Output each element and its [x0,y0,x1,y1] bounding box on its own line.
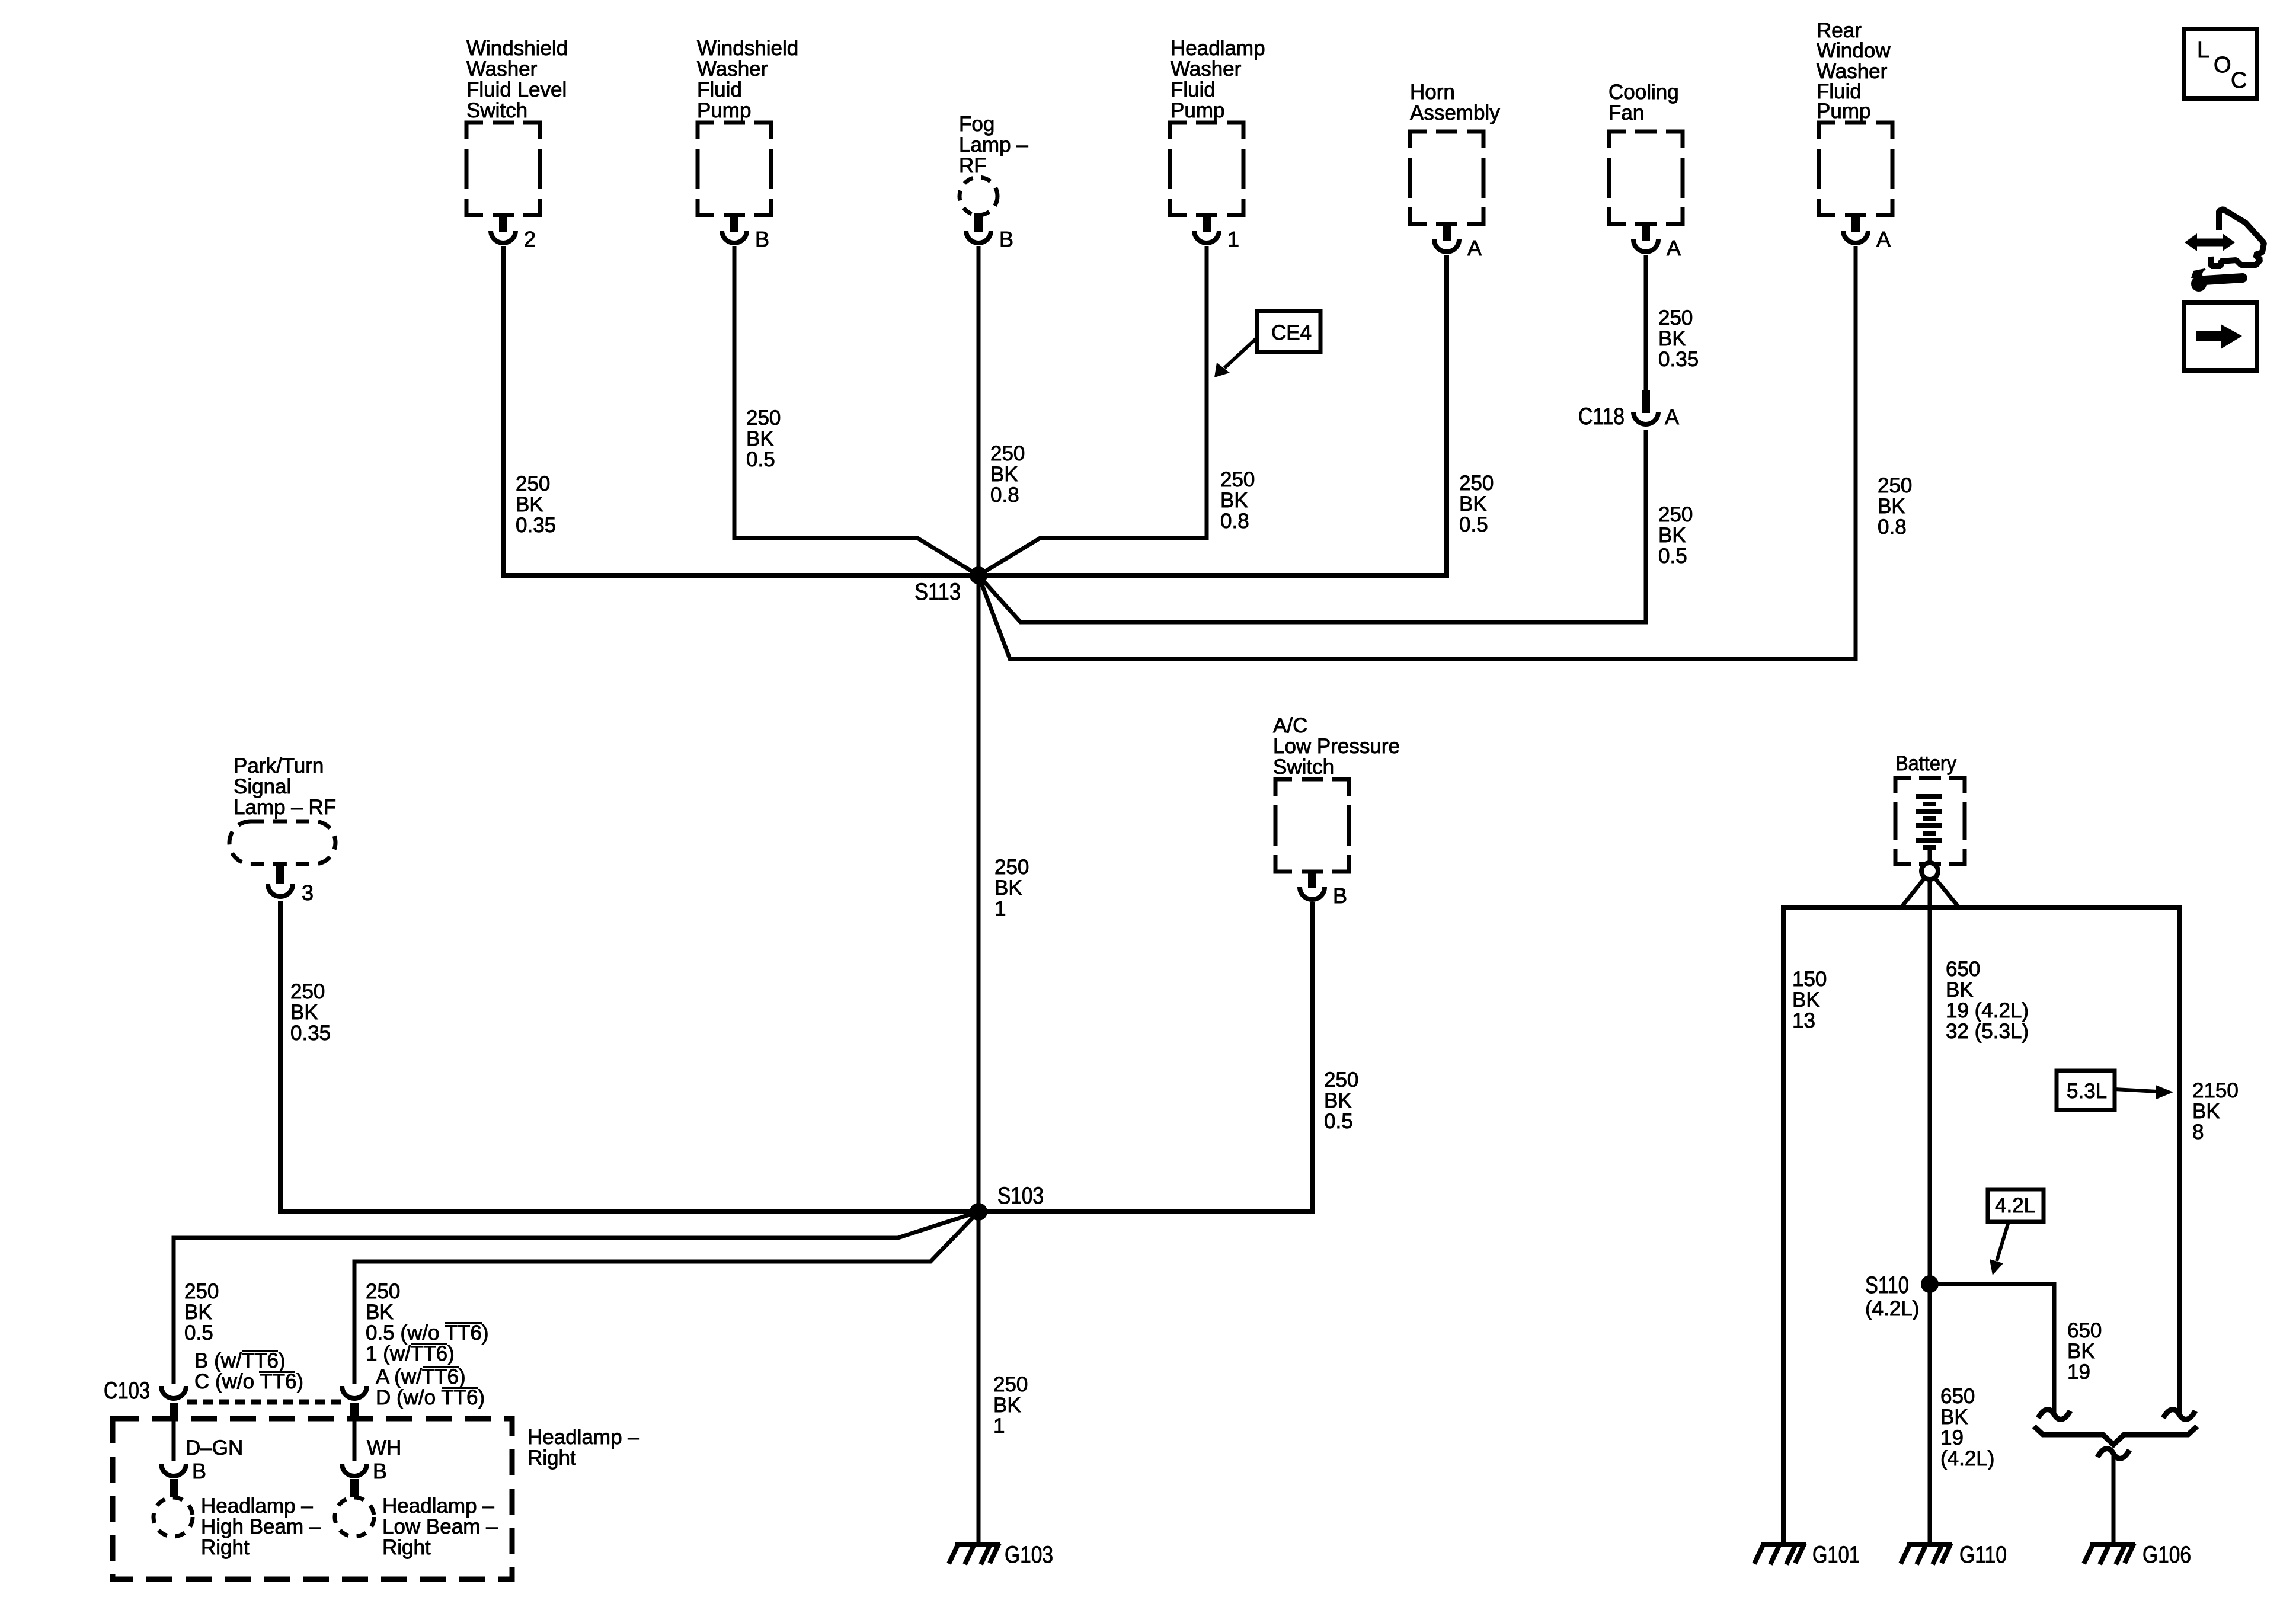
icon: vehicle service symbol double arrow [2185,233,2235,251]
svg-text:Lamp – RF: Lamp – RF [234,796,336,819]
svg-text:Switch: Switch [466,99,527,122]
svg-text:C (w/o TT6): C (w/o TT6) [194,1370,303,1393]
svg-text:0.35: 0.35 [1658,348,1699,371]
pin stub: park/turn lamp pin 3 [276,864,284,884]
svg-text:650: 650 [2067,1319,2102,1342]
callout box CE4 [1257,311,1320,352]
connector cup: park/turn lamp pin 3 [268,884,293,897]
svg-text:B: B [755,227,769,251]
svg-text:Signal: Signal [234,775,291,798]
svg-text:C118: C118 [1578,404,1625,430]
wire: headlamp washer pump to S113 [978,246,1207,575]
wire label 250 BK 0.5 (horn) [1459,472,1494,536]
svg-text:250: 250 [516,472,550,495]
svg-text:0.5: 0.5 [746,448,775,471]
svg-text:Park/Turn: Park/Turn [234,754,324,777]
svg-text:B: B [999,227,1013,251]
svg-text:Horn: Horn [1410,81,1455,104]
pin stub: WWF pump pin B [730,215,738,232]
wire label 150 BK 13 [1792,968,1827,1032]
svg-text:S103: S103 [997,1183,1044,1209]
icon: arrow continuation box [2184,302,2257,370]
wire break squiggle (S110 branch) [2038,1410,2070,1420]
splice label S113 [914,579,961,605]
component box: Headlamp - Right dashed box [113,1419,512,1579]
connector cup: high beam pin B [161,1464,186,1476]
svg-text:Fog: Fog [959,113,994,136]
svg-text:250: 250 [746,406,781,430]
svg-text:250: 250 [1658,503,1693,526]
svg-text:High Beam –: High Beam – [201,1515,321,1538]
wire: rear washer pump to S113 [978,246,1856,659]
svg-text:A: A [1667,236,1681,260]
svg-text:Pump: Pump [697,99,751,122]
wire: battery terminal fan-out diagonals [1901,878,1959,907]
wire: S103 to headlamp low beam branch [354,1212,978,1384]
ground label G103 [1005,1542,1053,1568]
svg-text:1: 1 [1227,227,1239,251]
wire: C118 to S113 [978,430,1646,622]
callout arrow 5.3L [2115,1085,2173,1099]
ground G101 [1754,1543,1806,1564]
pin stub: rear washer pump pin A [1851,215,1860,232]
svg-text:1: 1 [993,1414,1005,1438]
svg-text:A: A [1876,227,1891,251]
pin labels B/C (C103 left) [194,1349,303,1393]
connector cup: low beam pin B [342,1464,367,1476]
connector cup: rear washer pump pin A [1843,231,1868,243]
ground label G101 [1812,1542,1860,1568]
svg-text:BK: BK [1658,524,1686,547]
connector cup: horn pin A [1434,239,1459,252]
svg-text:Pump: Pump [1817,100,1870,123]
svg-text:0.35: 0.35 [290,1022,331,1045]
pin stub: C103 right male pin [350,1403,359,1419]
svg-text:250: 250 [184,1280,219,1303]
svg-text:BK: BK [746,427,774,450]
battery cell plates [1916,796,1942,847]
component box: Headlamp Washer Fluid Pump [1170,123,1243,215]
wire: S113 to S103 [977,575,981,1212]
pin label 3 [302,881,314,905]
svg-text:A (w/TT6): A (w/TT6) [376,1365,466,1388]
svg-text:Right: Right [201,1536,250,1559]
svg-text:8: 8 [2192,1121,2204,1144]
svg-text:G101: G101 [1812,1542,1860,1568]
component label: Windshield Washer Fluid Pump [697,37,798,122]
component stadium: Park/Turn Signal Lamp - RF [229,821,335,864]
pin label 2 [524,227,536,251]
svg-text:Cooling: Cooling [1609,81,1679,104]
svg-text:Assembly: Assembly [1410,101,1500,124]
svg-text:Washer: Washer [697,57,768,81]
svg-text:5.3L: 5.3L [2067,1080,2107,1103]
wire: horn to S113 [978,255,1447,575]
svg-text:Washer: Washer [1171,57,1242,81]
wire label 650 BK 19 (S110 branch) [2067,1319,2102,1384]
wire label 250 BK 1 (S113 to S103) [994,856,1029,920]
component label: A/C Low Pressure Switch [1273,714,1400,779]
wire label 650 BK 19 (4.2L) (G110 run) [1940,1385,1994,1470]
svg-text:3: 3 [302,881,314,905]
pin label A (C118) [1665,405,1679,429]
wire label 2150 BK 8 [2192,1079,2239,1144]
svg-text:250: 250 [1658,306,1693,329]
svg-text:19: 19 [1940,1426,1964,1449]
icon: LOC reference box [2184,29,2257,98]
wire label 250 BK 0.8 (rear washer pump) [1878,474,1912,539]
svg-text:650: 650 [1940,1385,1975,1408]
svg-text:Window: Window [1817,39,1891,62]
svg-text:250: 250 [993,1373,1028,1396]
wire label 250 BK 0.5 (WWF pump) [746,406,781,471]
battery negative terminal stub [1928,847,1932,863]
svg-text:Switch: Switch [1273,756,1334,779]
svg-text:(4.2L): (4.2L) [1865,1297,1919,1320]
connector cup: WWF pump pin B [722,231,747,243]
svg-text:250: 250 [290,980,325,1003]
connector label C118 [1578,404,1625,430]
wire break squiggle (G106) [2097,1449,2129,1459]
svg-text:Headlamp –: Headlamp – [382,1494,494,1518]
pin label B (low beam) [373,1459,387,1483]
svg-text:250: 250 [994,856,1029,879]
splice S103 junction dot [970,1203,987,1221]
component label: Cooling Fan [1609,81,1679,124]
ground G110 [1901,1543,1952,1564]
svg-text:Pump: Pump [1171,99,1224,122]
svg-text:S113: S113 [914,579,961,605]
svg-text:19: 19 [2067,1361,2090,1384]
svg-text:Fluid: Fluid [697,78,742,101]
wire: low beam feed [353,1419,357,1461]
svg-text:Headlamp –: Headlamp – [527,1426,639,1449]
component circle: Fog Lamp - RF [960,177,997,215]
svg-text:A: A [1467,236,1482,260]
svg-text:Right: Right [382,1536,431,1559]
svg-text:A: A [1665,405,1679,429]
ground label G110 [1959,1542,2007,1568]
pin stub: low beam lamp [350,1479,359,1497]
splice S113 junction dot [970,566,987,584]
component box: Cooling Fan [1609,132,1683,224]
svg-text:CE4: CE4 [1271,321,1312,344]
component label: Headlamp - Right [527,1426,639,1470]
svg-text:250: 250 [1220,468,1255,491]
svg-text:1 (w/TT6): 1 (w/TT6) [366,1342,455,1365]
wire label 650 BK 19 (4.2L) 32 (5.3L) [1946,958,2029,1043]
connector C103 dashed line [187,1400,341,1405]
svg-text:BK: BK [184,1301,212,1324]
pin label 1 [1227,227,1239,251]
component box: Rear Window Washer Fluid Pump [1819,123,1892,215]
svg-text:32 (5.3L): 32 (5.3L) [1946,1020,2029,1043]
svg-text:13: 13 [1792,1009,1815,1032]
svg-text:Headlamp –: Headlamp – [201,1494,313,1518]
svg-text:G103: G103 [1005,1542,1053,1568]
callout box 4.2L [1988,1189,2044,1222]
svg-text:Headlamp: Headlamp [1171,37,1265,60]
pin label B (high beam) [192,1459,206,1483]
svg-text:BK: BK [1459,492,1487,516]
svg-text:BK: BK [1220,489,1248,512]
svg-text:0.8: 0.8 [1878,516,1907,539]
svg-text:B (w/TT6): B (w/TT6) [194,1349,286,1372]
pin labels A/D (C103 right) [376,1365,485,1409]
svg-text:Fluid Level: Fluid Level [466,78,567,101]
svg-text:250: 250 [1878,474,1912,497]
component box: Battery dashed box [1895,778,1965,864]
svg-text:0.5: 0.5 [184,1321,213,1345]
callout arrow 4.2L [1990,1222,2009,1275]
component box: A/C Low Pressure Switch [1275,779,1349,872]
pin label B [755,227,769,251]
svg-text:Right: Right [527,1446,576,1470]
splice S110 junction dot [1921,1275,1939,1293]
svg-text:1: 1 [994,897,1006,920]
pin label A [1876,227,1891,251]
wire: S110 branch to break [1930,1284,2054,1414]
ground label G106 [2142,1542,2191,1568]
icon: vehicle service symbol wrench [2191,268,2243,292]
svg-text:D (w/o TT6): D (w/o TT6) [376,1386,485,1409]
wire label 250 BK 0.5 (high beam) [184,1280,219,1345]
connector C103 cup left [161,1386,186,1398]
connector cup: headlamp washer pump pin 1 [1194,231,1219,243]
icon: vehicle service symbol outline [2211,209,2264,266]
svg-text:A/C: A/C [1273,714,1307,737]
component label: Horn Assembly [1410,81,1500,124]
pin label A [1667,236,1681,260]
pin stub: fog lamp pin B [974,213,983,232]
svg-text:Low Beam –: Low Beam – [382,1515,498,1538]
wire label 250 BK 0.5 (cooling fan lower) [1658,503,1693,568]
connector label C103 [104,1378,150,1404]
wire label 250 BK 0.5 / 1 (low beam) [366,1280,488,1365]
ground G106 [2084,1543,2135,1564]
svg-text:BK: BK [990,463,1018,486]
svg-text:650: 650 [1946,958,1980,981]
svg-text:G106: G106 [2142,1542,2191,1568]
lamp circle: Headlamp High Beam Right [154,1497,193,1537]
wire: battery center wire to S110 and G110 [1928,878,1932,1542]
svg-text:C103: C103 [104,1378,150,1404]
pin stub: cooling fan pin A [1642,224,1650,241]
wire label 250 BK 0.35 (WWFL switch) [516,472,556,537]
svg-text:BK: BK [2192,1100,2220,1123]
wire label D-GN [186,1436,243,1459]
svg-text:BK: BK [1946,978,1974,1001]
svg-text:Fan: Fan [1609,101,1644,124]
svg-text:4.2L: 4.2L [1995,1194,2035,1217]
wire label 250 BK 0.35 (park/turn lamp) [290,980,331,1045]
wire: fog lamp to S113 [977,246,981,575]
svg-text:Washer: Washer [466,57,538,81]
wire: battery ground bus to G101 and 2150 BK 8 branch [1783,907,2179,1542]
component label: Park/Turn Signal Lamp - RF [234,754,336,819]
pin stub: WWFL switch pin 2 [499,215,507,232]
svg-text:Fluid: Fluid [1171,78,1216,101]
svg-text:S110: S110 [1865,1272,1909,1298]
svg-text:Windshield: Windshield [466,37,568,60]
pin stub: headlamp washer pump pin 1 [1203,215,1211,232]
svg-text:2150: 2150 [2192,1079,2239,1102]
battery terminal ring [1921,863,1938,879]
component label: Battery [1895,752,1956,775]
svg-text:250: 250 [990,442,1025,465]
svg-text:250: 250 [1324,1068,1358,1092]
wire label 250 BK 0.5 (A/C switch) [1324,1068,1358,1133]
pin label B [999,227,1013,251]
svg-text:BK: BK [516,493,543,516]
component box: Windshield Washer Fluid Pump [698,123,771,215]
svg-text:BK: BK [1324,1089,1352,1112]
wire break squiggle (2150 branch) [2163,1410,2195,1420]
wire: S103 to headlamp high beam branch [174,1212,978,1384]
component box: Windshield Washer Fluid Level Switch [466,123,540,215]
pin stub: C103 left male pin [170,1403,178,1419]
svg-text:150: 150 [1792,968,1827,991]
wire label WH [367,1436,401,1459]
ground G103 [949,1543,1000,1564]
svg-text:250: 250 [1459,472,1494,495]
pin label A [1467,236,1482,260]
svg-text:B: B [1333,884,1347,908]
svg-text:O: O [2214,53,2231,78]
wire: park/turn lamp to S103 [280,901,978,1212]
connector cup: fog lamp pin B [966,231,991,243]
wire: cooling fan to C118 [1644,255,1648,391]
svg-text:BK: BK [993,1394,1021,1417]
connector C103 cup right [342,1386,367,1398]
component label: Headlamp Washer Fluid Pump [1171,37,1265,122]
svg-text:0.5: 0.5 [1324,1110,1353,1133]
connector cup: A/C switch pin B [1300,887,1325,900]
svg-text:RF: RF [959,154,987,177]
svg-text:(4.2L): (4.2L) [1940,1447,1994,1470]
svg-text:BK: BK [1878,495,1905,518]
pin label B [1333,884,1347,908]
brace to G106 [2034,1426,2197,1445]
svg-text:0.8: 0.8 [1220,510,1249,533]
lamp label: Headlamp High Beam Right [201,1494,321,1559]
svg-text:D–GN: D–GN [186,1436,243,1459]
svg-text:19 (4.2L): 19 (4.2L) [1946,999,2029,1022]
svg-text:2: 2 [524,227,536,251]
svg-text:WH: WH [367,1436,401,1459]
splice label S103 [997,1183,1044,1209]
svg-text:Low Pressure: Low Pressure [1273,735,1400,758]
lamp label: Headlamp Low Beam Right [382,1494,498,1559]
wire: high beam feed [172,1419,176,1461]
svg-text:0.5: 0.5 [1658,545,1687,568]
svg-text:BK: BK [1658,327,1686,350]
svg-text:BK: BK [2067,1340,2095,1363]
wire: S103 to G103 [977,1212,981,1542]
svg-text:B: B [373,1459,387,1483]
wire: WWF pump to S113 [734,246,978,575]
lamp circle: Headlamp Low Beam Right [335,1497,374,1537]
svg-text:0.35: 0.35 [516,514,556,537]
svg-text:G110: G110 [1959,1542,2007,1568]
wire: WWFL switch to S113 [503,246,978,575]
wire label 250 BK 0.8 (headlamp washer pump) [1220,468,1255,533]
component label: Fog Lamp - RF [959,113,1028,177]
wire: A/C switch to S103 [978,902,1312,1212]
svg-text:BK: BK [290,1001,318,1024]
wire label 250 BK 0.8 (fog lamp) [990,442,1025,507]
splice label S110 (4.2L) [1865,1272,1919,1320]
svg-text:Windshield: Windshield [697,37,798,60]
svg-text:BK: BK [1940,1406,1968,1429]
connector C118 cup [1633,412,1658,424]
callout box 5.3L [2057,1071,2115,1110]
svg-text:Lamp –: Lamp – [959,133,1028,156]
svg-text:C: C [2231,68,2247,93]
svg-text:0.5 (w/o TT6): 0.5 (w/o TT6) [366,1321,488,1345]
pin stub: horn pin A [1443,224,1451,241]
svg-text:Battery: Battery [1895,752,1956,775]
pin stub: A/C switch pin B [1308,872,1316,888]
connector cup: WWFL switch pin 2 [491,231,516,243]
svg-text:250: 250 [366,1280,400,1303]
component label: Windshield Washer Fluid Level Switch [466,37,568,122]
wire label 250 BK 1 (S103 to G103) [993,1373,1028,1438]
wire: brace to G106 [2112,1455,2116,1542]
component box: Horn Assembly [1410,132,1483,224]
svg-text:L: L [2197,38,2209,63]
wire label 250 BK 0.35 (cooling fan upper) [1658,306,1699,371]
svg-text:BK: BK [366,1301,394,1324]
svg-text:BK: BK [994,876,1022,900]
pin stub: high beam lamp [170,1479,178,1497]
svg-text:B: B [192,1459,206,1483]
callout arrow CE4 [1214,338,1257,377]
svg-text:0.8: 0.8 [990,484,1019,507]
svg-text:0.5: 0.5 [1459,513,1488,536]
svg-text:BK: BK [1792,988,1820,1012]
component label: Rear Window Washer Fluid Pump [1817,19,1891,123]
connector cup: cooling fan pin A [1633,239,1658,252]
connector C118 pin stub [1642,390,1650,413]
